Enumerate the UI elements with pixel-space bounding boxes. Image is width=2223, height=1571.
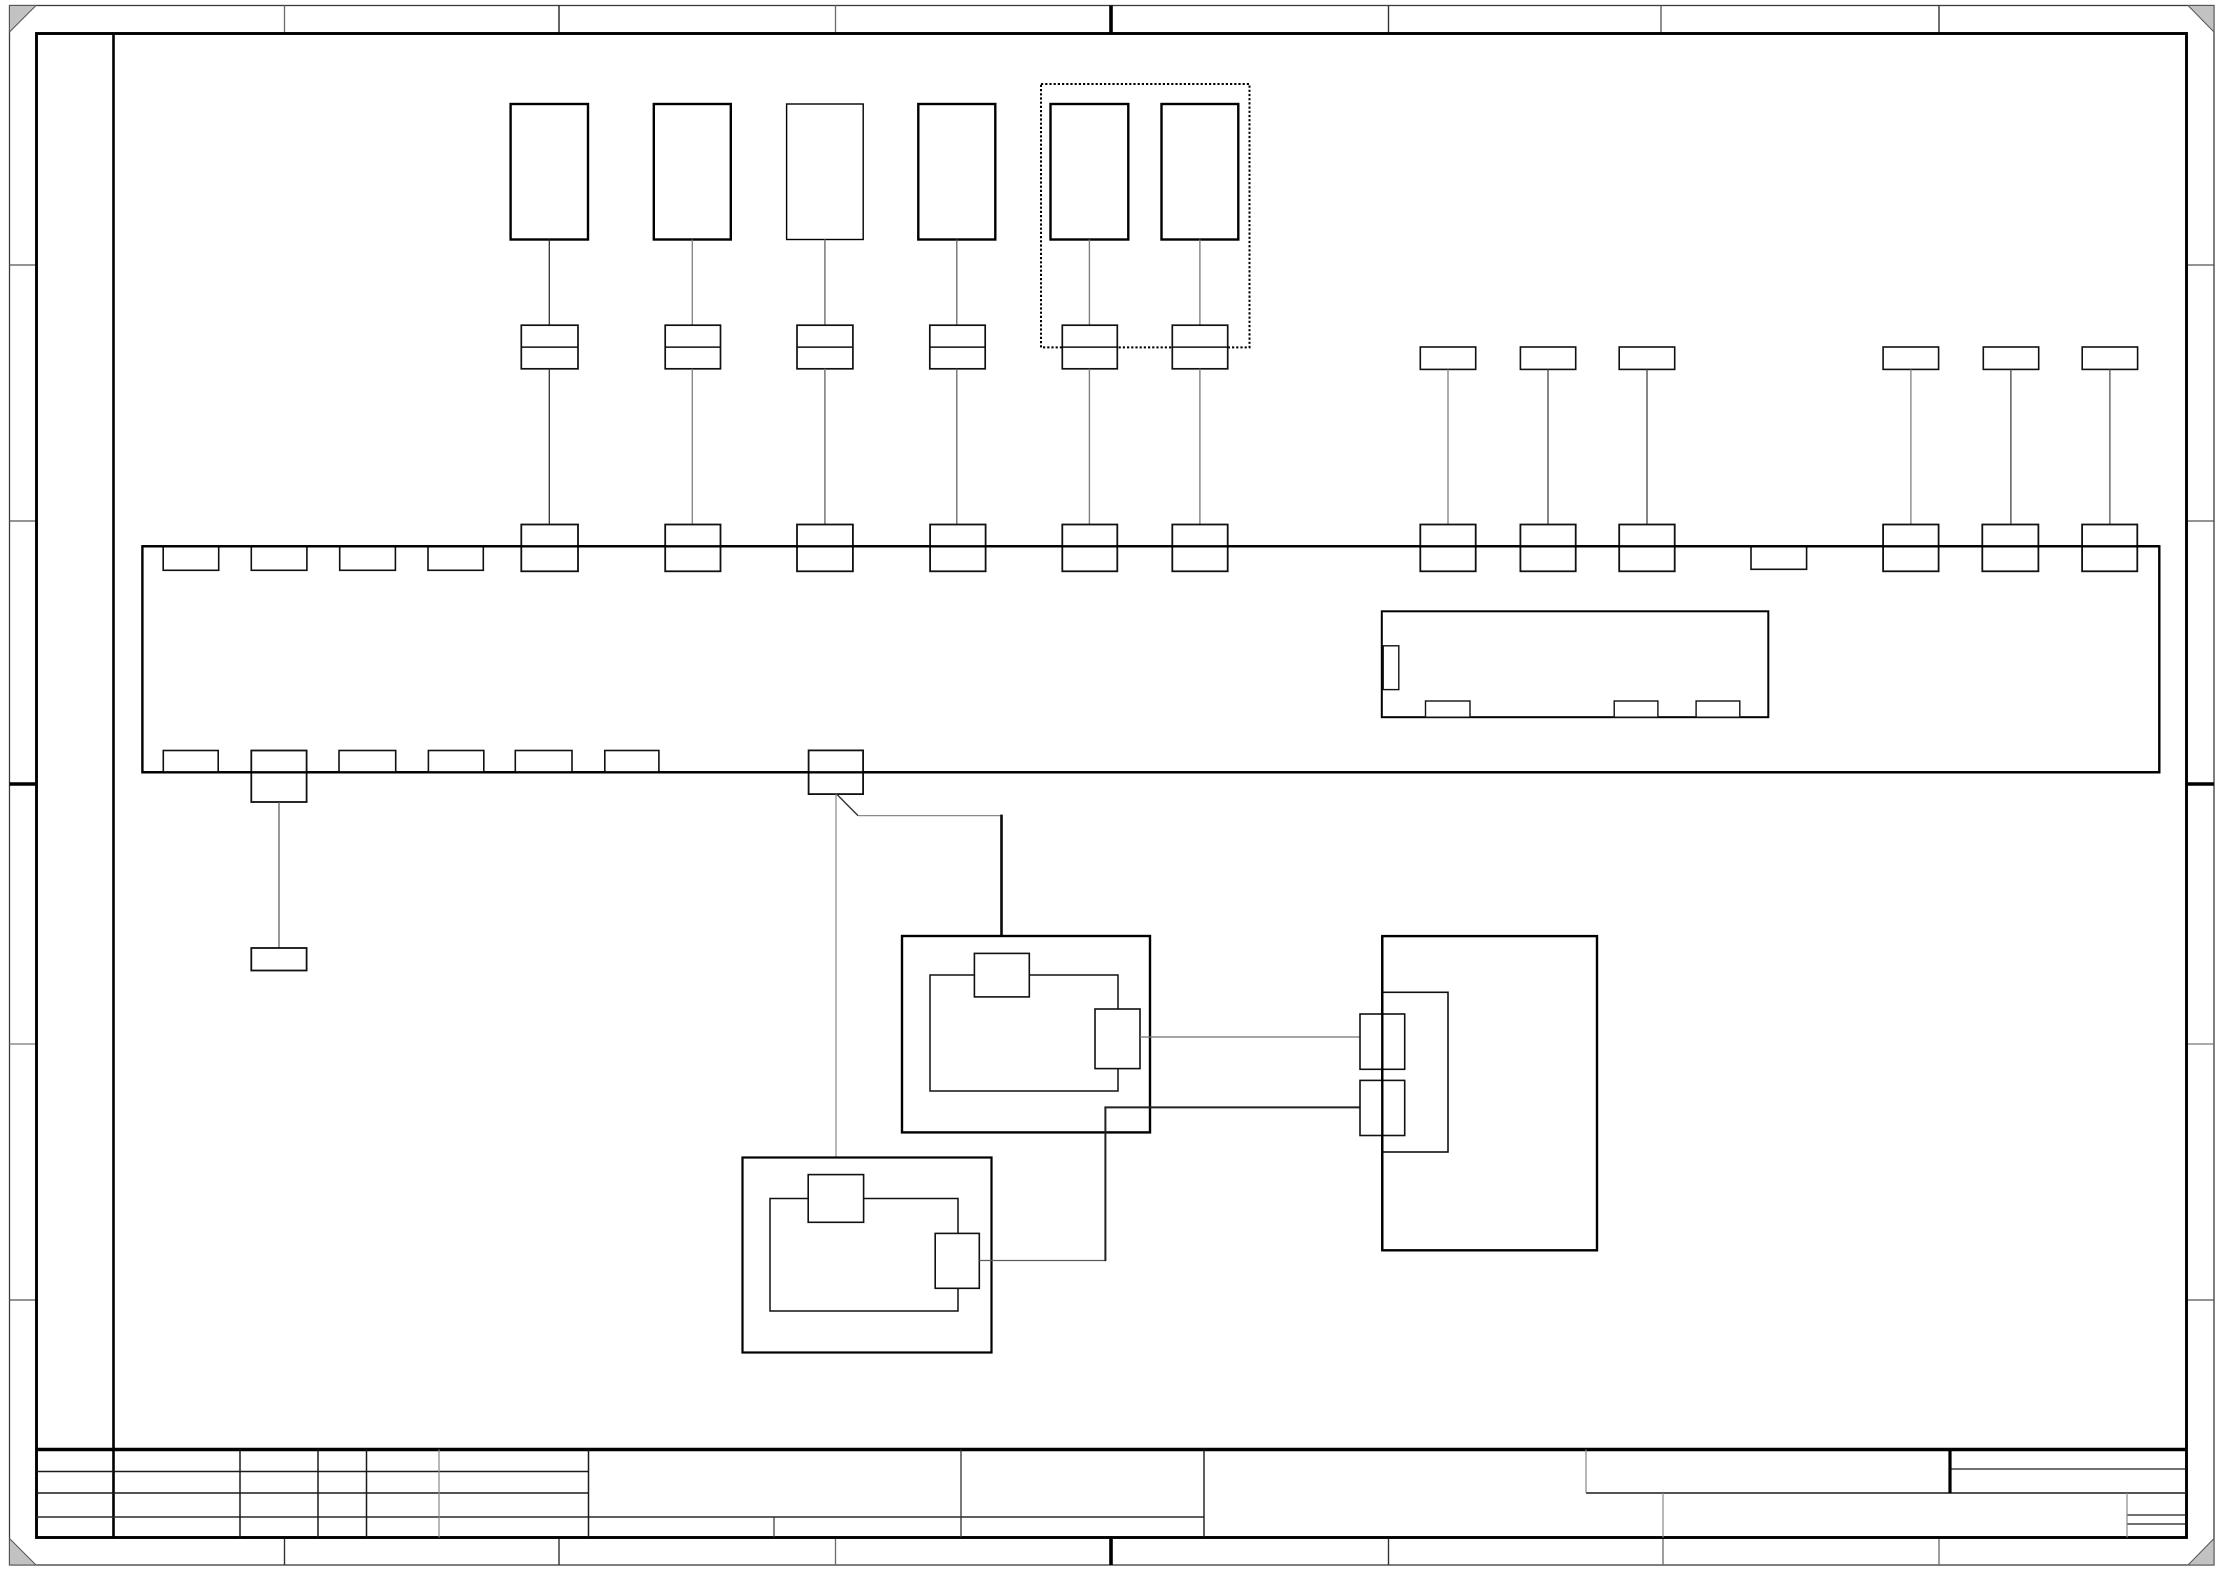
- drop wire col6 lower: [1199, 369, 1201, 525]
- wire module1 to module3: [1140, 1036, 1360, 1038]
- bus connector c4: [930, 525, 986, 572]
- bus bottom slot 5: [605, 751, 659, 773]
- top margin tick 6: [1938, 6, 1940, 34]
- top margin tick 5: [1660, 6, 1662, 34]
- corner triangle bottom-right: [2188, 1539, 2214, 1566]
- bottom margin tick 4: [1388, 1539, 1390, 1566]
- wire M diagonal: [837, 795, 858, 816]
- wire B2 drop: [278, 802, 280, 948]
- left margin centre tick: [10, 782, 37, 785]
- drop wire col6 upper: [1199, 240, 1201, 326]
- bus connector c11: [1982, 525, 2038, 572]
- title block vertical v1: [239, 1450, 241, 1538]
- fuse block col5: [1062, 325, 1117, 369]
- title block vertical v4: [438, 1450, 440, 1538]
- frame left column divider: [112, 34, 115, 1538]
- sensor box col12: [2082, 347, 2137, 369]
- bottom margin tick 6: [1938, 1539, 1940, 1566]
- sensor box col8: [1520, 347, 1575, 369]
- wire module2 riser: [1104, 1107, 1106, 1261]
- corner triangle bottom-left: [10, 1539, 37, 1566]
- load rect L4: [918, 104, 995, 240]
- title block vertical v11 heavy: [1948, 1450, 1951, 1494]
- module1 inner unit: [930, 975, 1118, 1091]
- bus connector c9: [1619, 525, 1675, 572]
- drop wire col4 lower: [956, 369, 958, 525]
- drop wire col9: [1646, 369, 1648, 524]
- fuse block col4: [930, 325, 985, 369]
- left margin tick 1: [10, 264, 37, 266]
- title block vertical v2: [317, 1450, 319, 1538]
- title block vertical v8: [1203, 1450, 1205, 1538]
- module2 inner unit: [770, 1199, 958, 1312]
- module2 outer case: [743, 1158, 992, 1353]
- drop wire col8: [1547, 369, 1549, 524]
- bus connector c8: [1520, 525, 1575, 572]
- bus top slot 1: [163, 546, 219, 570]
- right margin centre tick: [2187, 782, 2215, 785]
- wire M drop to module2: [835, 794, 837, 1175]
- bottom margin centre tick: [1109, 1539, 1113, 1566]
- left margin tick 4: [10, 1299, 37, 1301]
- bus bottom slot 3: [428, 751, 483, 773]
- left margin tick 2: [10, 520, 37, 522]
- bottom margin tick 2: [558, 1539, 560, 1566]
- module1 top pin: [974, 953, 1029, 997]
- title block row line right upper: [1950, 1468, 2187, 1470]
- drop wire col4 upper: [956, 240, 958, 326]
- wire riser to module1: [1000, 815, 1003, 955]
- bus connector c3: [797, 525, 853, 572]
- right margin tick 1: [2187, 264, 2215, 266]
- terminal box B2b: [251, 948, 306, 971]
- feeder terminal M on bus bottom: [809, 750, 864, 794]
- module3 pin A: [1360, 1014, 1405, 1069]
- inner module bottom tab 1: [1426, 701, 1471, 717]
- drop wire col10: [1910, 369, 1912, 524]
- load rect L5: [1051, 104, 1129, 240]
- load rect L6: [1162, 104, 1239, 240]
- bus top slot 5: [1751, 546, 1807, 569]
- wire module2 lower run: [979, 1260, 1105, 1262]
- sensor box col7: [1420, 347, 1475, 369]
- bus band bottom edge redraw: [142, 771, 2159, 773]
- bottom margin tick 1: [284, 1539, 286, 1566]
- title block vertical v9: [1585, 1450, 1587, 1494]
- drop wire col3 lower: [824, 369, 826, 525]
- title block vertical v3: [366, 1450, 368, 1538]
- module2 right pin: [935, 1233, 979, 1288]
- bus connector c2: [665, 525, 720, 572]
- fuse block col2: [665, 325, 720, 369]
- bus top slot 4: [428, 546, 483, 570]
- drop wire col1 upper: [548, 240, 550, 326]
- title block row line right mid: [1586, 1492, 2187, 1494]
- module1 right pin: [1095, 1009, 1140, 1069]
- sensor box col9: [1619, 347, 1675, 369]
- bus band top edge redraw: [142, 545, 2159, 547]
- drop wire col2 lower: [691, 369, 693, 525]
- drop wire col12: [2109, 369, 2111, 524]
- corner triangle top-left: [10, 6, 37, 33]
- sensor box col10: [1883, 347, 1939, 369]
- bus top slot 3: [340, 546, 396, 570]
- title block small row line 2: [2127, 1523, 2187, 1525]
- wire module2 top run to module3: [1104, 1106, 1360, 1108]
- title block top heavy line: [37, 1448, 2187, 1451]
- bus bottom slot 1: [163, 751, 218, 773]
- fuse block col1: [521, 325, 578, 369]
- title block row line C: [37, 1516, 1205, 1518]
- inner module left tab: [1383, 646, 1399, 690]
- title block vertical v6: [773, 1517, 775, 1538]
- bus bottom slot 2: [339, 751, 396, 773]
- bus top slot 2: [251, 546, 307, 570]
- bottom margin tick 3: [835, 1539, 837, 1566]
- module3 inner unit: [1382, 992, 1448, 1152]
- module3 outer case: [1382, 936, 1597, 1250]
- drop wire col5 upper: [1088, 240, 1090, 326]
- fuse block col3: [797, 325, 853, 369]
- top margin centre tick: [1109, 6, 1113, 34]
- bus connector c7: [1420, 525, 1475, 572]
- feeder terminal B2 on bus bottom: [251, 751, 306, 803]
- inner module bottom tab 2: [1614, 701, 1658, 717]
- title block vertical v12: [2126, 1493, 2128, 1538]
- drop wire col11: [2010, 369, 2012, 524]
- drop wire col2 upper: [691, 240, 693, 326]
- top margin tick 1: [284, 6, 286, 34]
- top margin tick 3: [835, 6, 837, 34]
- load rect L2: [654, 104, 731, 240]
- title block row line A left: [37, 1471, 589, 1473]
- bus connector c5: [1062, 525, 1117, 572]
- title block row line B left: [37, 1492, 589, 1494]
- right margin tick 2: [2187, 520, 2215, 522]
- top margin tick 4: [1388, 6, 1390, 34]
- title block vertical v7: [960, 1450, 962, 1538]
- title block vertical v10: [1662, 1493, 1664, 1538]
- title block vertical v5: [588, 1450, 590, 1538]
- dotted group enclosure: [1041, 84, 1250, 347]
- title block small row line 1: [2127, 1514, 2187, 1516]
- bus connector c10: [1883, 525, 1939, 572]
- drop wire col7: [1447, 369, 1449, 524]
- load rect L1: [511, 104, 588, 240]
- module3 pin B: [1360, 1080, 1405, 1135]
- drop wire col3 upper: [824, 240, 826, 326]
- bus bottom slot 4: [515, 751, 572, 773]
- left margin tick 3: [10, 1043, 37, 1045]
- bus connector c12: [2082, 525, 2137, 572]
- drop wire col5 lower: [1088, 369, 1090, 525]
- fuse block col6: [1172, 325, 1227, 369]
- load rect L3: [787, 104, 864, 240]
- bus band: [142, 546, 2159, 772]
- bus connector c1: [521, 525, 578, 572]
- wire M horizontal run: [858, 815, 1002, 817]
- right margin tick 4: [2187, 1299, 2215, 1301]
- right margin tick 3: [2187, 1043, 2215, 1045]
- inner module bottom tab 3: [1696, 701, 1740, 717]
- bottom margin tick 5: [1662, 1539, 1664, 1566]
- inner module on bus: [1382, 611, 1769, 717]
- corner triangle top-right: [2188, 6, 2214, 33]
- bus connector c6: [1172, 525, 1227, 572]
- module3 left edge over pins: [1381, 936, 1383, 1250]
- module1 outer case: [902, 936, 1150, 1132]
- top margin tick 2: [558, 6, 560, 34]
- sensor box col11: [1983, 347, 2038, 369]
- drop wire col1 lower: [548, 369, 550, 525]
- module2 top pin: [808, 1175, 863, 1223]
